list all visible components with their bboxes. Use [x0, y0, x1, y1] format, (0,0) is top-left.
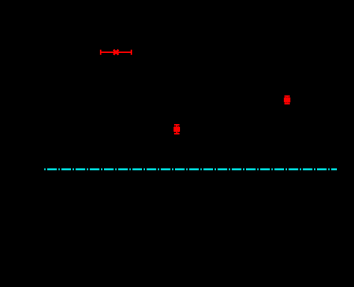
P3 yerr top cap — [284, 95, 289, 97]
P2 yerr bar — [176, 125, 178, 134]
P2 xerr bar — [174, 128, 179, 130]
P1 xerr left cap — [100, 50, 102, 55]
P2 xerr right cap — [178, 127, 180, 132]
P1 xerr bar — [101, 51, 132, 53]
P3 xerr bar — [285, 99, 290, 101]
P1 xerr right cap — [130, 50, 132, 55]
dash-dot reference line — [44, 168, 337, 170]
P2 yerr bottom cap — [174, 133, 179, 135]
errorbar point P1 — [101, 50, 132, 55]
P3 xerr right cap — [289, 98, 291, 103]
P3 xerr left cap — [284, 98, 286, 103]
P3 yerr bottom cap — [284, 103, 289, 105]
P3 x marker — [285, 97, 290, 102]
P1 x marker — [114, 50, 119, 55]
errorbar point P3 — [284, 96, 289, 104]
P2 x marker — [174, 127, 179, 132]
P2 yerr top cap — [174, 124, 179, 126]
P3 yerr bar — [286, 96, 288, 104]
P2 xerr left cap — [173, 127, 175, 132]
errorbar point P2 — [174, 125, 179, 134]
